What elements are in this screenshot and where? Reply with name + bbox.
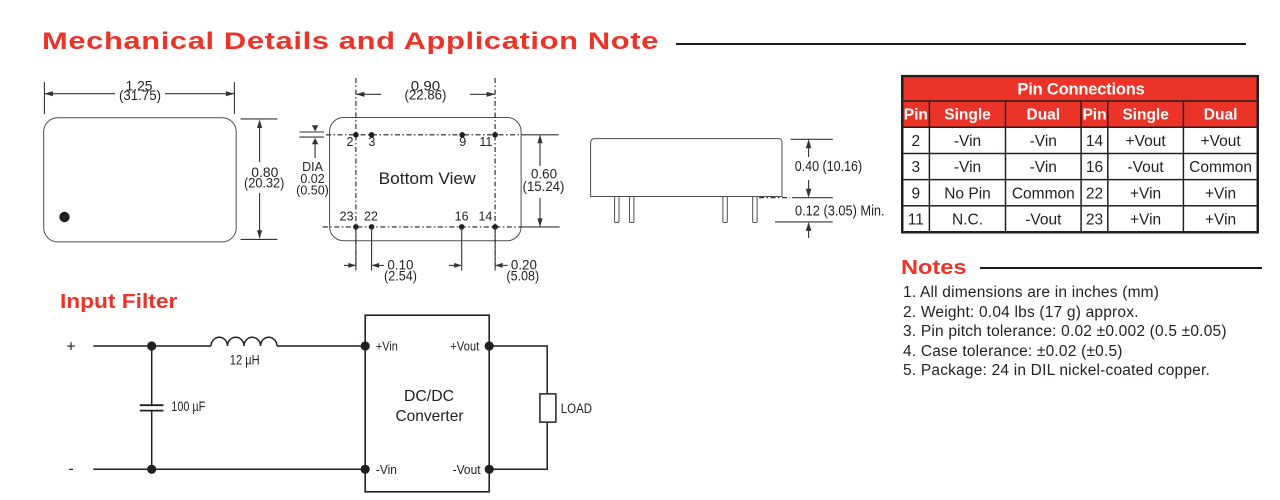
table row pin 2 / 14: [911, 133, 1241, 150]
pin row centerline top (dash-dot): [326, 134, 522, 136]
wire top rail right: [277, 345, 365, 347]
svg-text:11: 11: [479, 135, 492, 149]
svg-text:(22.86): (22.86): [405, 88, 447, 103]
pin 2 column centerline (dash-dot): [355, 78, 357, 268]
svg-text:+Vin: +Vin: [1205, 212, 1236, 229]
svg-text:Converter: Converter: [396, 408, 465, 425]
svg-text:DC/DC: DC/DC: [404, 388, 454, 405]
table row pin 3 / 16: [911, 159, 1252, 176]
dimension 0.60 (15.24) pin row span: [537, 135, 542, 227]
dimension 0.40 (10.16) case height: [791, 139, 833, 197]
seating plane dash-dot lead-in: [759, 197, 790, 199]
case outline bottom view: [330, 118, 521, 241]
svg-text:(5.08): (5.08): [506, 269, 539, 284]
pin 1 index dot: [59, 212, 69, 222]
title rule line: [676, 43, 1246, 46]
table title Pin Connections: [1017, 80, 1144, 98]
node + input positive terminal: [66, 338, 75, 355]
svg-text:12 µH: 12 µH: [230, 353, 260, 368]
svg-text:(15.24): (15.24): [523, 179, 565, 194]
dimension 0.90 (22.86) pin span: [356, 92, 495, 97]
svg-text:2: 2: [911, 133, 920, 150]
extension line 0.60 bottom right: [522, 226, 560, 228]
capacitor C1 lower lead: [151, 411, 153, 470]
case outline top view: [44, 118, 237, 242]
svg-text:22: 22: [364, 210, 378, 224]
junction node bottom of capacitor: [147, 465, 156, 474]
wire top rail left: [93, 345, 211, 347]
pin 2: [353, 132, 359, 138]
inductor L1: [211, 337, 277, 346]
pin number labels bottom row: [340, 210, 493, 224]
svg-text:Single: Single: [1122, 107, 1169, 124]
notes rule line: [980, 267, 1262, 269]
pin 14: [492, 224, 498, 230]
svg-text:(31.75): (31.75): [119, 88, 161, 103]
svg-text:16: 16: [455, 210, 469, 224]
svg-text:Common: Common: [1189, 159, 1252, 176]
svg-text:9: 9: [911, 185, 920, 202]
wire bottom rail: [93, 468, 365, 470]
pin 9: [459, 132, 465, 138]
dimension 0.80 (20.32) height: [241, 119, 278, 239]
capacitor C1 upper lead: [151, 346, 153, 405]
svg-text:Pin: Pin: [904, 107, 928, 124]
svg-text:+Vin: +Vin: [1130, 185, 1161, 202]
DC/DC converter label: [396, 388, 465, 425]
svg-text:23: 23: [1086, 212, 1103, 229]
pin 3: [369, 132, 375, 138]
dimension 1.25 (31.75) width: [44, 82, 234, 114]
svg-text:-Vin: -Vin: [1030, 133, 1057, 150]
side view pin D: [753, 197, 757, 223]
svg-text:0.12 (3.05) Min.: 0.12 (3.05) Min.: [795, 204, 885, 220]
dimension 0.20 (5.08) pin pitch: [449, 263, 508, 268]
capacitor C1 plates: [140, 405, 164, 410]
svg-text:No Pin: No Pin: [944, 185, 991, 202]
node +Vout: [485, 341, 494, 350]
section title: Mechanical Details and Application Note: [42, 30, 659, 55]
capacitor value label 100 uF: [171, 399, 205, 414]
svg-text:-Vin: -Vin: [376, 463, 397, 477]
svg-text:+Vin: +Vin: [376, 340, 398, 354]
pin number labels top row: [347, 135, 493, 149]
extension line 0.60 top right: [522, 134, 559, 136]
svg-text:14: 14: [1086, 133, 1104, 150]
svg-text:(20.32): (20.32): [244, 176, 284, 191]
svg-text:-Vout: -Vout: [1025, 212, 1062, 229]
svg-text:+: +: [66, 338, 75, 355]
svg-text:-Vout: -Vout: [453, 463, 482, 477]
svg-text:+Vout: +Vout: [1201, 133, 1242, 150]
svg-text:23: 23: [340, 210, 354, 224]
svg-text:Pin: Pin: [1082, 107, 1106, 124]
svg-text:-Vin: -Vin: [954, 159, 981, 176]
node - input negative terminal: [68, 461, 73, 478]
dimension 0.10 (2.54) pin pitch: [344, 263, 384, 268]
wire load to -Vout: [489, 422, 547, 469]
svg-text:16: 16: [1086, 159, 1103, 176]
svg-text:Common: Common: [1012, 185, 1075, 202]
dimension DIA 0.02 (0.50) pin diameter callout: [299, 125, 324, 158]
svg-text:(2.54): (2.54): [384, 269, 417, 284]
svg-text:LOAD: LOAD: [561, 401, 592, 416]
svg-text:Bottom View: Bottom View: [379, 170, 476, 188]
svg-text:Single: Single: [944, 107, 991, 124]
table grid lines: [902, 76, 1258, 232]
svg-text:3: 3: [368, 135, 375, 149]
node -Vin: [361, 465, 370, 474]
load label: [561, 401, 592, 416]
side view pin A: [615, 197, 619, 223]
svg-text:9: 9: [459, 135, 466, 149]
svg-text:+Vout: +Vout: [1126, 133, 1167, 150]
svg-text:N.C.: N.C.: [952, 212, 983, 229]
Notes heading: [901, 258, 967, 279]
svg-text:3: 3: [911, 159, 920, 176]
svg-text:-Vin: -Vin: [1030, 159, 1057, 176]
pin 23: [353, 224, 359, 230]
table column headers: [904, 107, 1238, 124]
pin 22: [369, 224, 375, 230]
pin row centerline bottom (dash-dot): [323, 226, 522, 228]
wire +Vout to load: [489, 346, 547, 394]
svg-text:Dual: Dual: [1027, 107, 1061, 124]
svg-text:11: 11: [908, 212, 924, 229]
svg-text:+Vout: +Vout: [450, 340, 479, 354]
node -Vout: [485, 465, 494, 474]
svg-text:+Vin: +Vin: [1205, 185, 1236, 202]
case outline side view: [591, 139, 782, 197]
Input Filter heading: [60, 292, 177, 313]
label Bottom View: [379, 170, 476, 188]
extension line below pin 23: [355, 227, 357, 271]
dimension 0.12 (3.05) Min. standoff: [795, 204, 885, 220]
pin 11: [492, 132, 498, 138]
svg-text:14: 14: [478, 210, 492, 224]
pin 11 column centerline (dash-dot): [494, 78, 496, 268]
side view pin B: [630, 197, 634, 223]
extension line below pin 14: [494, 227, 496, 271]
svg-text:Dual: Dual: [1204, 107, 1238, 124]
pin 16: [459, 224, 465, 230]
svg-text:-Vout: -Vout: [1127, 159, 1164, 176]
extension line below pin 16: [461, 227, 463, 271]
svg-text:100 µF: 100 µF: [171, 399, 205, 414]
svg-text:(0.50): (0.50): [296, 184, 329, 198]
junction node top of capacitor: [147, 341, 156, 350]
table header background: [904, 77, 1257, 127]
node +Vin: [361, 341, 370, 350]
svg-text:22: 22: [1086, 185, 1103, 202]
svg-text:-Vin: -Vin: [954, 133, 981, 150]
svg-text:2: 2: [347, 135, 354, 149]
side view pin C: [723, 197, 727, 223]
table row pin 11 / 23: [908, 212, 1236, 229]
svg-text:-: -: [68, 461, 73, 478]
table row pin 9 / 22: [911, 185, 1236, 202]
svg-text:0.40 (10.16): 0.40 (10.16): [795, 159, 863, 175]
svg-text:Pin Connections: Pin Connections: [1017, 80, 1144, 98]
svg-text:+Vin: +Vin: [1130, 212, 1161, 229]
inductor value label 12 uH: [230, 353, 260, 368]
extension line below pin 22: [371, 227, 373, 271]
load resistor R1: [540, 394, 556, 422]
DC/DC converter U1: [365, 315, 489, 492]
notes list: [903, 283, 1227, 380]
